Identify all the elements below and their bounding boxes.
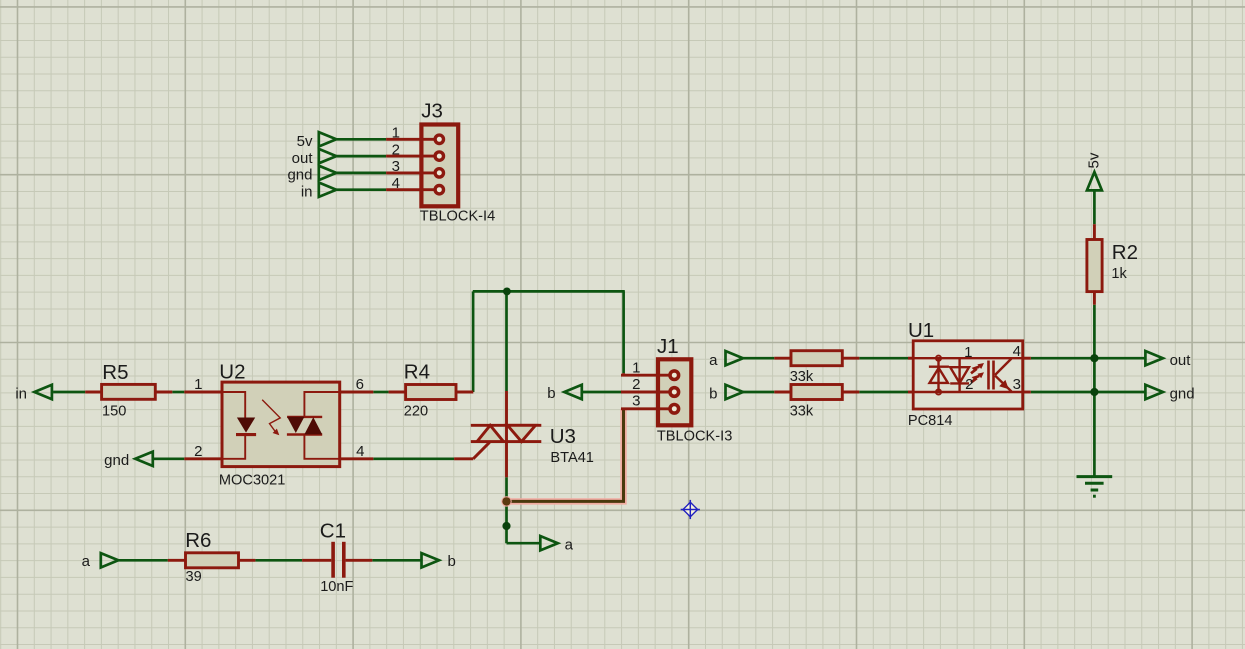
svg-text:b: b	[709, 385, 717, 402]
svg-text:2: 2	[965, 376, 973, 393]
svg-text:R2: R2	[1112, 241, 1138, 264]
svg-text:C1: C1	[320, 520, 346, 543]
svg-text:6: 6	[356, 376, 364, 393]
svg-text:a: a	[709, 352, 718, 369]
svg-text:5v: 5v	[1086, 152, 1103, 168]
svg-text:in: in	[15, 386, 27, 403]
svg-text:R4: R4	[404, 360, 430, 383]
svg-text:out: out	[292, 150, 314, 167]
svg-text:5v: 5v	[297, 133, 313, 150]
svg-text:3: 3	[1013, 376, 1021, 393]
svg-text:R5: R5	[102, 361, 128, 384]
svg-text:U2: U2	[219, 360, 245, 383]
svg-text:4: 4	[356, 443, 364, 460]
svg-text:gnd: gnd	[1170, 385, 1195, 402]
svg-text:1: 1	[964, 344, 972, 361]
svg-text:a: a	[82, 553, 91, 570]
svg-text:39: 39	[186, 569, 202, 585]
svg-text:33k: 33k	[790, 369, 814, 385]
svg-text:gnd: gnd	[104, 452, 129, 469]
svg-text:220: 220	[404, 404, 428, 420]
svg-text:J3: J3	[421, 99, 443, 122]
svg-text:4: 4	[392, 175, 400, 192]
svg-text:1: 1	[392, 125, 400, 142]
svg-text:4: 4	[1013, 343, 1021, 360]
svg-text:1: 1	[194, 376, 202, 393]
svg-text:2: 2	[392, 141, 400, 158]
svg-text:TBLOCK-I4: TBLOCK-I4	[420, 209, 495, 225]
svg-text:U1: U1	[908, 319, 934, 342]
svg-text:b: b	[448, 553, 456, 570]
svg-text:R6: R6	[185, 529, 211, 552]
svg-text:in: in	[301, 183, 313, 200]
svg-text:PC814: PC814	[908, 413, 953, 429]
svg-text:10nF: 10nF	[320, 579, 353, 595]
svg-text:BTA41: BTA41	[550, 450, 594, 466]
svg-text:2: 2	[194, 443, 202, 460]
svg-text:1: 1	[632, 360, 640, 377]
svg-text:a: a	[565, 536, 574, 553]
svg-text:U3: U3	[550, 425, 576, 448]
svg-text:2: 2	[632, 376, 640, 393]
svg-text:3: 3	[632, 393, 640, 410]
svg-text:b: b	[547, 385, 555, 402]
svg-text:TBLOCK-I3: TBLOCK-I3	[657, 428, 732, 444]
svg-text:3: 3	[392, 158, 400, 175]
svg-text:MOC3021: MOC3021	[219, 473, 286, 489]
svg-text:gnd: gnd	[287, 167, 312, 184]
svg-text:1k: 1k	[1111, 266, 1127, 282]
svg-text:out: out	[1170, 352, 1192, 369]
svg-text:33k: 33k	[790, 404, 814, 420]
svg-text:J1: J1	[657, 335, 679, 358]
svg-text:150: 150	[102, 404, 126, 420]
